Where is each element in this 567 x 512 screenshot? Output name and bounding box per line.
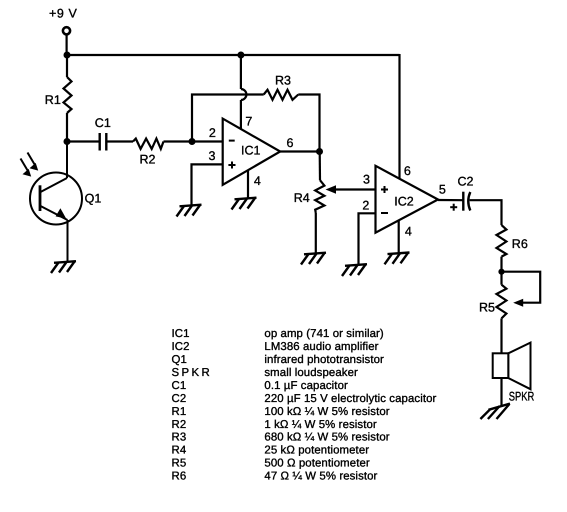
svg-text:R4: R4 xyxy=(172,445,187,457)
svg-text:2: 2 xyxy=(362,198,369,212)
svg-text:6: 6 xyxy=(404,164,411,178)
svg-text:+9 V: +9 V xyxy=(49,7,78,21)
svg-text:100 kΩ ¼ W 5% resistor: 100 kΩ ¼ W 5% resistor xyxy=(264,406,389,418)
svg-text:R2: R2 xyxy=(140,152,156,166)
svg-text:R3: R3 xyxy=(172,432,187,444)
svg-text:IC2: IC2 xyxy=(172,341,190,353)
svg-text:R5: R5 xyxy=(479,301,495,315)
svg-text:IC2: IC2 xyxy=(394,195,414,209)
svg-text:500 Ω potentiometer: 500 Ω potentiometer xyxy=(264,458,370,470)
svg-text:C1: C1 xyxy=(172,380,187,392)
svg-text:R1: R1 xyxy=(45,93,61,107)
svg-text:4: 4 xyxy=(405,224,412,238)
svg-text:R2: R2 xyxy=(172,419,187,431)
svg-text:3: 3 xyxy=(209,149,216,163)
svg-text:C1: C1 xyxy=(95,116,111,130)
svg-text:Q1: Q1 xyxy=(172,354,187,366)
svg-text:R5: R5 xyxy=(172,458,187,470)
svg-text:R4: R4 xyxy=(294,191,310,205)
svg-text:op amp (741 or similar): op amp (741 or similar) xyxy=(264,328,384,340)
svg-text:SPKR: SPKR xyxy=(509,390,535,404)
svg-text:SPKR: SPKR xyxy=(172,367,213,379)
svg-text:220 µF 15 V electrolytic capac: 220 µF 15 V electrolytic capacitor xyxy=(264,393,436,405)
svg-text:IC1: IC1 xyxy=(241,144,261,158)
svg-text:C2: C2 xyxy=(458,174,474,188)
svg-text:R3: R3 xyxy=(275,73,291,87)
svg-text:C2: C2 xyxy=(172,393,187,405)
svg-text:0.1 µF capacitor: 0.1 µF capacitor xyxy=(264,380,348,392)
svg-text:IC1: IC1 xyxy=(172,328,190,340)
svg-text:small loudspeaker: small loudspeaker xyxy=(264,367,358,379)
svg-text:2: 2 xyxy=(209,126,216,140)
svg-text:3: 3 xyxy=(363,173,370,187)
svg-text:47 Ω ¼ W 5% resistor: 47 Ω ¼ W 5% resistor xyxy=(264,471,377,483)
svg-text:infrared phototransistor: infrared phototransistor xyxy=(264,354,384,366)
svg-text:R6: R6 xyxy=(512,237,528,251)
svg-text:4: 4 xyxy=(254,174,261,188)
svg-text:R1: R1 xyxy=(172,406,187,418)
svg-text:Q1: Q1 xyxy=(85,191,102,205)
svg-text:25 kΩ potentiometer: 25 kΩ potentiometer xyxy=(264,445,369,457)
svg-text:7: 7 xyxy=(245,115,252,129)
svg-text:1 kΩ ¼ W 5% resistor: 1 kΩ ¼ W 5% resistor xyxy=(264,419,377,431)
svg-text:R6: R6 xyxy=(172,471,187,483)
svg-text:680 kΩ ¼ W 5% resistor: 680 kΩ ¼ W 5% resistor xyxy=(264,432,389,444)
svg-text:LM386 audio amplifier: LM386 audio amplifier xyxy=(264,341,378,353)
svg-text:5: 5 xyxy=(439,183,446,197)
svg-text:6: 6 xyxy=(287,136,294,150)
